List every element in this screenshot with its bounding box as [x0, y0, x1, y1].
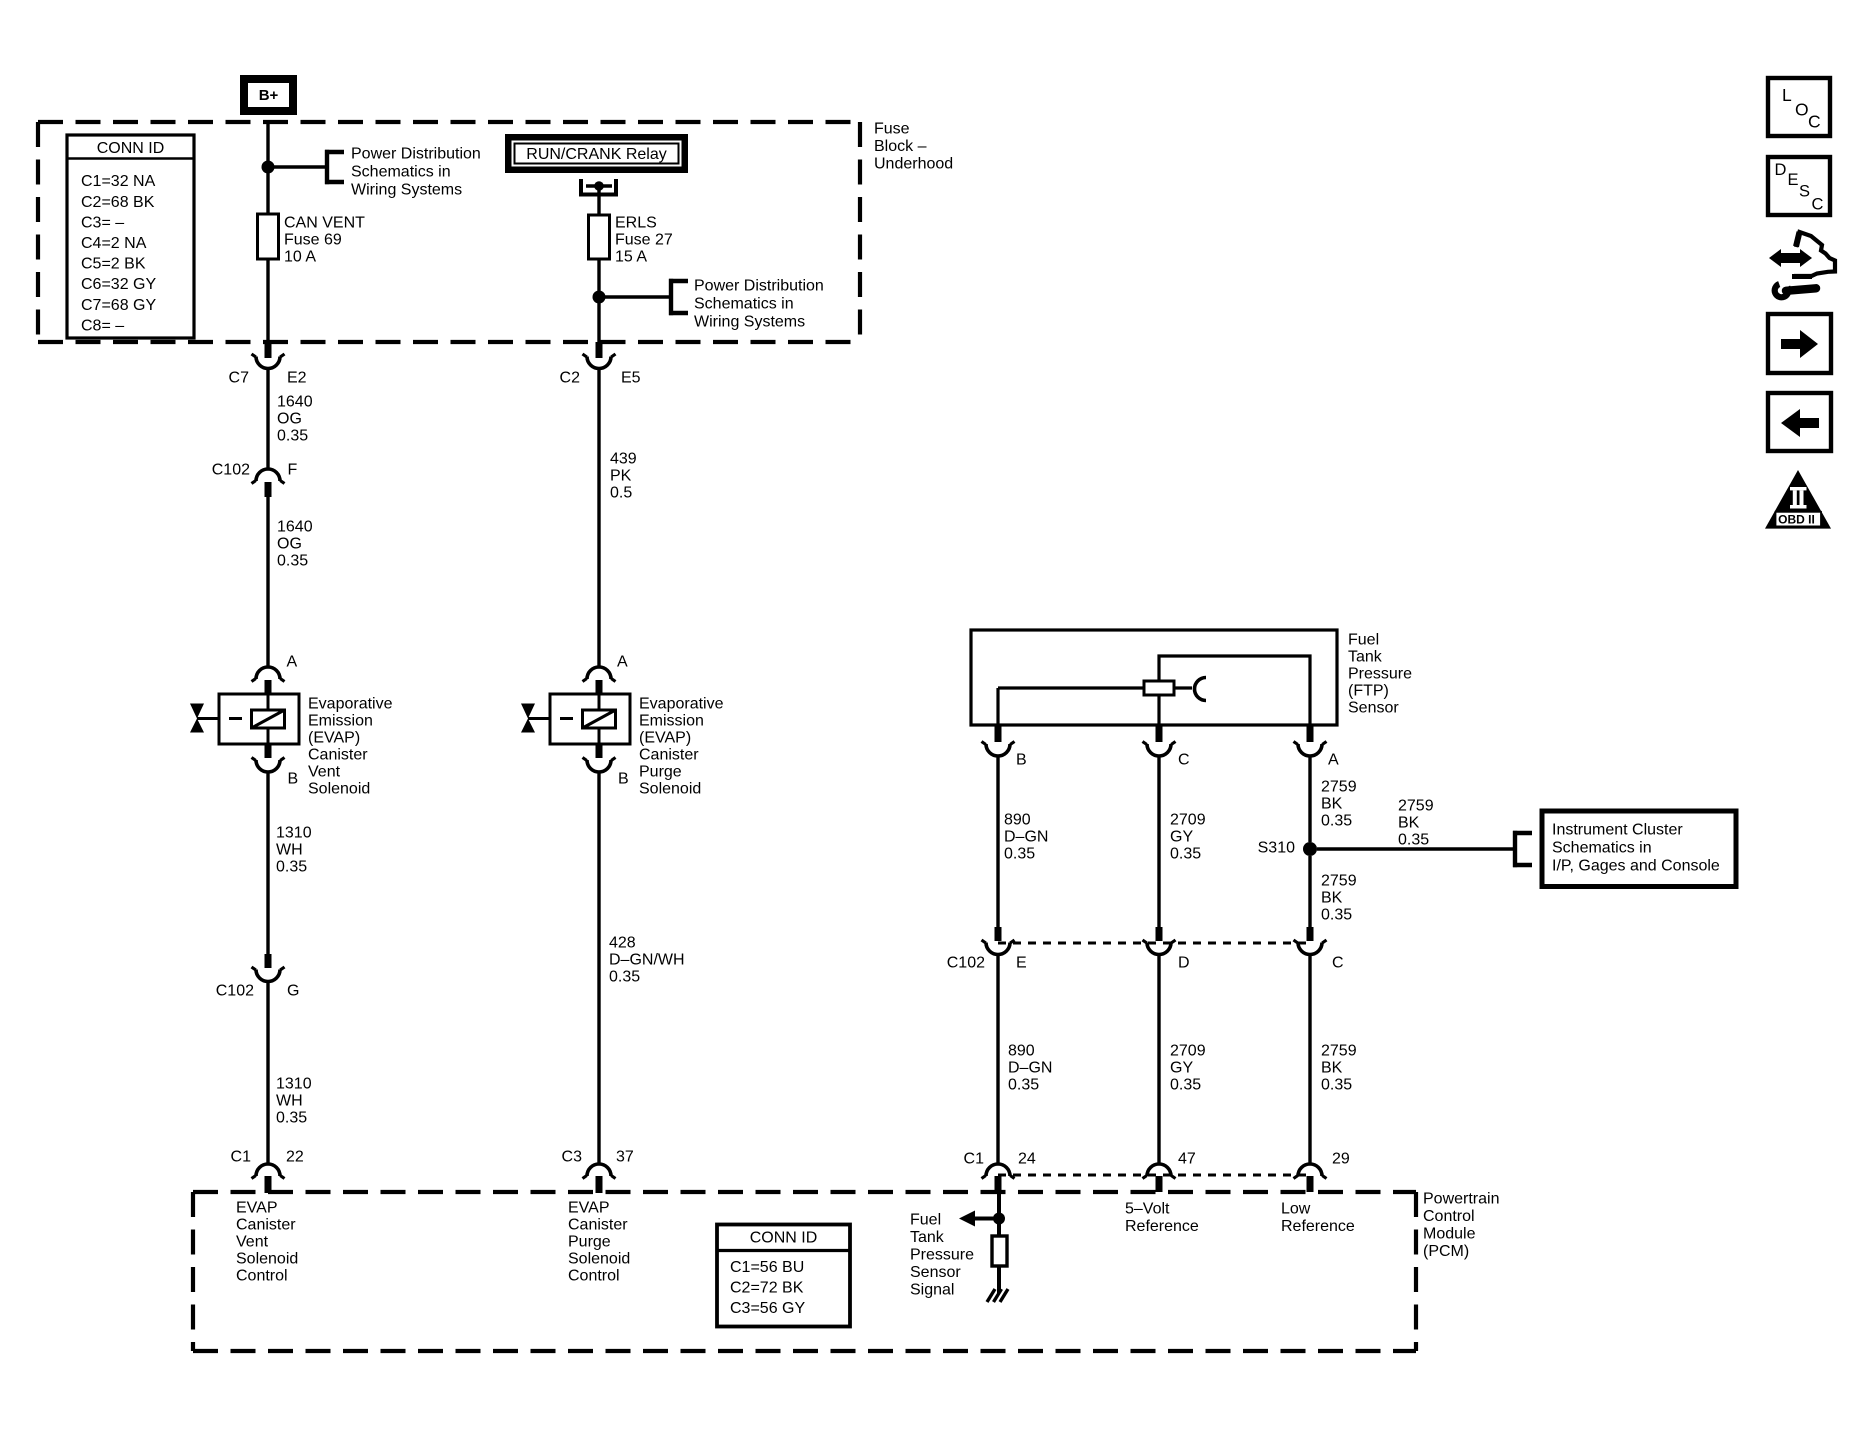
svg-text:(EVAP): (EVAP) [639, 730, 691, 747]
svg-text:E2: E2 [287, 370, 307, 387]
svg-text:C1: C1 [231, 1149, 252, 1166]
svg-text:Module: Module [1423, 1226, 1476, 1243]
svg-text:D–GN/WH: D–GN/WH [609, 952, 685, 969]
svg-text:24: 24 [1018, 1151, 1036, 1168]
svg-text:C1: C1 [964, 1151, 985, 1168]
svg-text:C: C [1812, 196, 1824, 214]
svg-text:E: E [1788, 171, 1799, 189]
svg-text:A: A [287, 654, 298, 671]
svg-text:Underhood: Underhood [874, 156, 953, 173]
svg-text:I/P, Gages and Console: I/P, Gages and Console [1552, 858, 1720, 875]
svg-text:Wiring Systems: Wiring Systems [694, 314, 805, 331]
svg-text:OBD II: OBD II [1778, 513, 1815, 527]
svg-text:E5: E5 [621, 370, 641, 387]
svg-text:C2: C2 [560, 370, 581, 387]
svg-text:0.35: 0.35 [609, 969, 640, 986]
svg-text:Signal: Signal [910, 1282, 954, 1299]
svg-text:Schematics in: Schematics in [1552, 840, 1652, 857]
svg-text:O: O [1795, 99, 1809, 119]
svg-text:2759: 2759 [1321, 779, 1357, 796]
svg-text:BK: BK [1321, 890, 1343, 907]
svg-text:C: C [1808, 111, 1821, 131]
svg-text:Canister: Canister [236, 1217, 296, 1234]
svg-text:0.35: 0.35 [1321, 907, 1352, 924]
svg-text:(PCM): (PCM) [1423, 1243, 1469, 1260]
svg-text:CONN ID: CONN ID [97, 140, 165, 157]
svg-text:Tank: Tank [910, 1229, 945, 1246]
svg-text:Reference: Reference [1281, 1218, 1355, 1235]
svg-text:Canister: Canister [639, 747, 699, 764]
svg-text:1310: 1310 [276, 825, 312, 842]
svg-text:Control: Control [1423, 1208, 1475, 1225]
svg-text:C1=56 BU: C1=56 BU [730, 1259, 804, 1276]
svg-text:0.35: 0.35 [1321, 813, 1352, 830]
svg-text:BK: BK [1321, 1060, 1343, 1077]
svg-text:A: A [1328, 752, 1339, 769]
svg-text:C6=32 GY: C6=32 GY [81, 276, 156, 293]
svg-text:Wiring Systems: Wiring Systems [351, 182, 462, 199]
svg-text:D: D [1178, 955, 1190, 972]
svg-text:2709: 2709 [1170, 1043, 1206, 1060]
svg-text:Instrument Cluster: Instrument Cluster [1552, 822, 1683, 839]
svg-text:Block –: Block – [874, 138, 927, 155]
svg-text:C3=56 GY: C3=56 GY [730, 1300, 805, 1317]
svg-text:WH: WH [276, 1093, 303, 1110]
svg-text:47: 47 [1178, 1151, 1196, 1168]
svg-text:EVAP: EVAP [236, 1200, 278, 1217]
svg-text:Purge: Purge [639, 764, 682, 781]
svg-text:CAN VENT: CAN VENT [284, 215, 365, 232]
svg-text:15 A: 15 A [615, 249, 647, 266]
svg-text:Solenoid: Solenoid [308, 781, 370, 798]
svg-text:ERLS: ERLS [615, 215, 657, 232]
svg-text:Control: Control [236, 1268, 288, 1285]
svg-text:0.35: 0.35 [1321, 1077, 1352, 1094]
svg-text:PK: PK [610, 468, 632, 485]
svg-text:1640: 1640 [277, 519, 313, 536]
svg-text:29: 29 [1332, 1151, 1350, 1168]
svg-text:Power Distribution: Power Distribution [351, 146, 481, 163]
svg-text:0.35: 0.35 [1170, 846, 1201, 863]
svg-text:C102: C102 [947, 955, 985, 972]
svg-text:OG: OG [277, 536, 302, 553]
svg-text:Vent: Vent [308, 764, 341, 781]
svg-text:C102: C102 [216, 983, 254, 1000]
svg-text:0.35: 0.35 [277, 553, 308, 570]
svg-text:890: 890 [1004, 812, 1031, 829]
svg-text:D–GN: D–GN [1008, 1060, 1052, 1077]
svg-text:GY: GY [1170, 829, 1193, 846]
svg-text:C3: C3 [562, 1149, 583, 1166]
svg-text:5–Volt: 5–Volt [1125, 1201, 1170, 1218]
svg-text:37: 37 [616, 1149, 634, 1166]
svg-text:C102: C102 [212, 462, 250, 479]
svg-text:A: A [617, 654, 628, 671]
svg-text:D–GN: D–GN [1004, 829, 1048, 846]
svg-text:Pressure: Pressure [910, 1247, 974, 1264]
svg-text:B: B [1016, 752, 1027, 769]
svg-text:WH: WH [276, 842, 303, 859]
svg-text:GY: GY [1170, 1060, 1193, 1077]
svg-text:S: S [1799, 183, 1810, 201]
svg-text:Evaporative: Evaporative [308, 696, 393, 713]
svg-text:F: F [288, 462, 298, 479]
svg-text:C3= –: C3= – [81, 214, 124, 231]
svg-text:0.35: 0.35 [1004, 846, 1035, 863]
svg-text:Low: Low [1281, 1201, 1311, 1218]
svg-text:Sensor: Sensor [910, 1264, 961, 1281]
svg-text:Tank: Tank [1348, 649, 1383, 666]
svg-text:Solenoid: Solenoid [236, 1251, 298, 1268]
svg-text:OG: OG [277, 411, 302, 428]
svg-text:2759: 2759 [1321, 873, 1357, 890]
svg-text:439: 439 [610, 451, 637, 468]
svg-text:Canister: Canister [308, 747, 368, 764]
svg-text:C8= –: C8= – [81, 317, 124, 334]
svg-text:Emission: Emission [639, 713, 704, 730]
svg-text:2759: 2759 [1321, 1043, 1357, 1060]
svg-text:1640: 1640 [277, 394, 313, 411]
svg-text:Powertrain: Powertrain [1423, 1191, 1499, 1208]
svg-text:0.35: 0.35 [276, 859, 307, 876]
svg-text:Canister: Canister [568, 1217, 628, 1234]
svg-text:2709: 2709 [1170, 812, 1206, 829]
svg-text:C: C [1332, 955, 1344, 972]
svg-text:C4=2 NA: C4=2 NA [81, 235, 147, 252]
svg-text:C5=2 BK: C5=2 BK [81, 256, 146, 273]
svg-text:D: D [1775, 161, 1787, 179]
svg-text:G: G [287, 983, 299, 1000]
svg-text:B: B [288, 771, 299, 788]
svg-text:C7: C7 [229, 370, 250, 387]
svg-text:0.35: 0.35 [1398, 832, 1429, 849]
svg-text:Control: Control [568, 1268, 620, 1285]
svg-text:10 A: 10 A [284, 249, 316, 266]
svg-text:Pressure: Pressure [1348, 666, 1412, 683]
svg-text:Fuse: Fuse [874, 121, 910, 138]
svg-text:B: B [618, 771, 629, 788]
svg-text:(EVAP): (EVAP) [308, 730, 360, 747]
svg-text:C2=72 BK: C2=72 BK [730, 1280, 804, 1297]
svg-text:Evaporative: Evaporative [639, 696, 724, 713]
svg-text:E: E [1016, 955, 1027, 972]
svg-text:0.35: 0.35 [276, 1110, 307, 1127]
svg-text:CONN ID: CONN ID [750, 1230, 818, 1247]
svg-text:Power Distribution: Power Distribution [694, 278, 824, 295]
svg-text:Purge: Purge [568, 1234, 611, 1251]
svg-text:C: C [1178, 752, 1190, 769]
svg-text:Vent: Vent [236, 1234, 269, 1251]
svg-text:Fuse 27: Fuse 27 [615, 232, 673, 249]
svg-text:S310: S310 [1258, 840, 1295, 857]
svg-text:Fuel: Fuel [910, 1212, 941, 1229]
svg-text:Reference: Reference [1125, 1218, 1199, 1235]
svg-text:EVAP: EVAP [568, 1200, 610, 1217]
svg-text:1310: 1310 [276, 1076, 312, 1093]
svg-text:Fuel: Fuel [1348, 632, 1379, 649]
svg-text:428: 428 [609, 935, 636, 952]
svg-text:Schematics in: Schematics in [351, 164, 451, 181]
svg-text:Schematics in: Schematics in [694, 296, 794, 313]
svg-text:RUN/CRANK Relay: RUN/CRANK Relay [526, 146, 666, 163]
svg-text:0.5: 0.5 [610, 485, 632, 502]
svg-text:L: L [1782, 85, 1792, 105]
svg-text:Solenoid: Solenoid [639, 781, 701, 798]
svg-text:B+: B+ [259, 87, 279, 104]
svg-text:22: 22 [286, 1149, 304, 1166]
svg-text:(FTP): (FTP) [1348, 683, 1389, 700]
svg-text:C2=68 BK: C2=68 BK [81, 194, 155, 211]
svg-text:Solenoid: Solenoid [568, 1251, 630, 1268]
svg-text:0.35: 0.35 [1008, 1077, 1039, 1094]
svg-text:BK: BK [1321, 796, 1343, 813]
svg-text:Emission: Emission [308, 713, 373, 730]
svg-text:C7=68 GY: C7=68 GY [81, 297, 156, 314]
svg-text:0.35: 0.35 [1170, 1077, 1201, 1094]
svg-text:BK: BK [1398, 815, 1420, 832]
svg-text:2759: 2759 [1398, 798, 1434, 815]
svg-text:890: 890 [1008, 1043, 1035, 1060]
svg-text:C1=32 NA: C1=32 NA [81, 173, 156, 190]
svg-text:Fuse 69: Fuse 69 [284, 232, 342, 249]
svg-text:0.35: 0.35 [277, 428, 308, 445]
svg-text:Sensor: Sensor [1348, 700, 1399, 717]
